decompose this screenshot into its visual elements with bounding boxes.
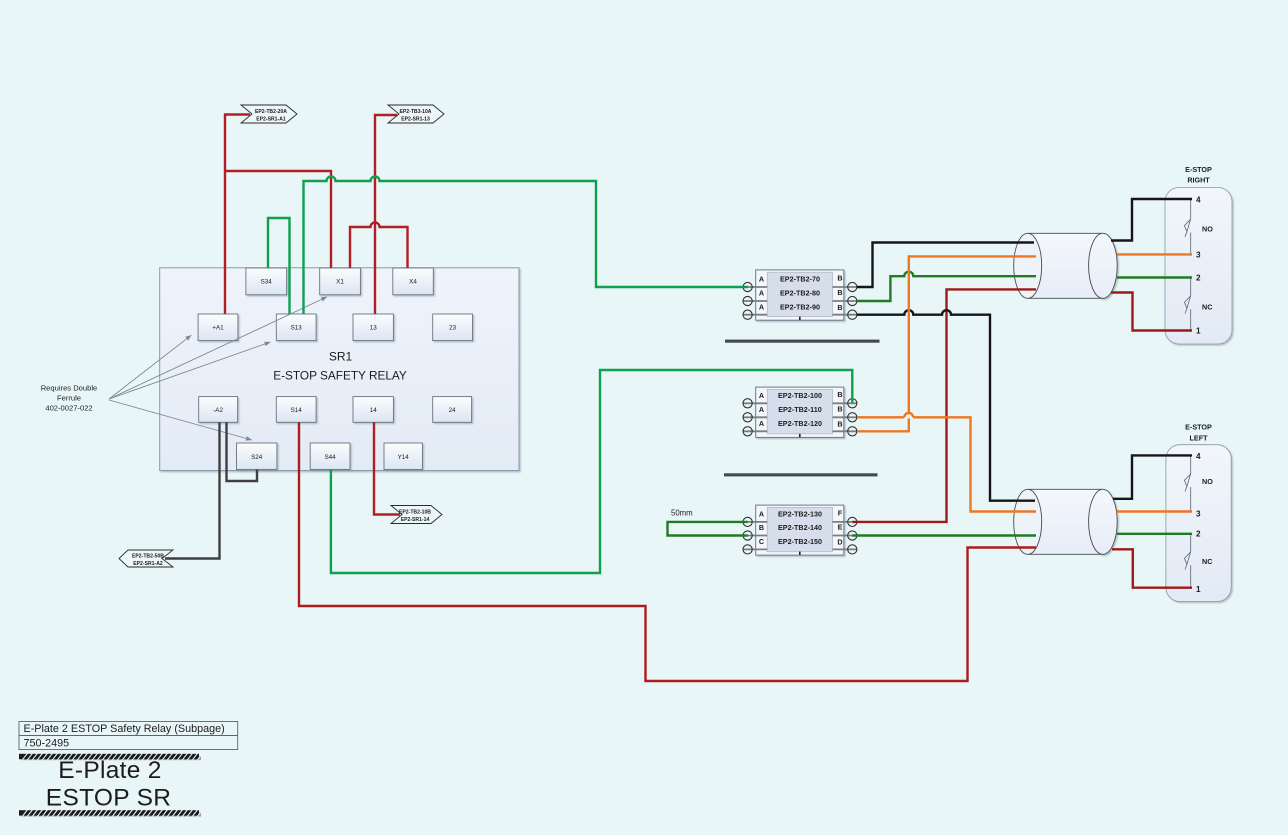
svg-text:X1: X1 <box>336 279 344 286</box>
svg-text:2: 2 <box>1196 530 1201 539</box>
terminal EP2-TB2-130 labels, pin A and pin F <box>759 509 843 519</box>
svg-text:E: E <box>838 523 843 532</box>
hatched bar above page title <box>19 753 203 761</box>
svg-text:B: B <box>837 288 842 297</box>
wire dark-green from cable cylinder to E-STOP RIGHT pin 2 <box>1117 276 1192 278</box>
svg-text:F: F <box>838 509 843 518</box>
svg-text:E-STOP SAFETY RELAY: E-STOP SAFETY RELAY <box>273 369 407 383</box>
svg-text:NC: NC <box>1202 302 1212 311</box>
E-STOP LEFT NO contact symbol <box>1184 455 1190 511</box>
E-STOP RIGHT NO contact symbol <box>1184 199 1190 254</box>
terminal X1 of SR1 <box>320 268 361 295</box>
wire black from terminal EP2-TB2-90 pin B to cable cylinder of E-STOP LEFT, hops over orange and red <box>857 310 1035 501</box>
svg-text:4: 4 <box>1196 195 1201 204</box>
svg-text:EP2-TB2-100: EP2-TB2-100 <box>778 391 822 400</box>
title block box: page description and number <box>19 722 238 750</box>
svg-text:EP2-TB2-10B: EP2-TB2-10B <box>399 509 431 515</box>
terminal EP2-TB2-120 labels, pin A and pin B <box>759 419 843 429</box>
svg-text:EP2-TB2-90: EP2-TB2-90 <box>780 303 820 312</box>
svg-text:EP2-TB2-50B: EP2-TB2-50B <box>132 553 164 559</box>
svg-text:2: 2 <box>1196 273 1201 282</box>
relay SR1 outline box <box>160 268 519 471</box>
wire black from terminal EP2-TB2-70 pin B to cable cylinder <box>857 243 1034 288</box>
wire green jumper terminal S34 to terminal S13 <box>268 218 290 314</box>
flag EP2-TB2-20A / EP2-SR1-A1 <box>241 105 297 123</box>
svg-text:E-STOP: E-STOP <box>1185 165 1212 174</box>
svg-text:A: A <box>759 405 764 414</box>
svg-text:S24: S24 <box>251 454 263 461</box>
terminal S14 of SR1 <box>276 397 316 423</box>
wire orange from terminal EP2-TB2-120 pin B up to junction node <box>857 418 909 431</box>
wire red from flag EP2-TB2-20A to terminal +A1, with branch node at y171 <box>225 115 250 315</box>
svg-text:EP2-TB2-20A: EP2-TB2-20A <box>255 109 287 115</box>
tick mark under block EP2-TB2-70/80/90 <box>799 317 801 320</box>
wire dark-green from terminal EP2-TB2-140 pin E to cable cylinder of E-STOP LEFT <box>852 534 1036 536</box>
terminal Y14 of SR1 <box>384 443 422 470</box>
svg-text:EP2-TB2-70: EP2-TB2-70 <box>780 275 820 284</box>
svg-text:A: A <box>759 419 764 428</box>
wire orange from cable cylinder to E-STOP RIGHT pin 3 <box>1117 253 1193 255</box>
separator bar between terminal block groups 2 and 3 <box>724 473 878 476</box>
terminal X4 of SR1 <box>393 268 434 295</box>
terminal EP2-TB2-150 labels, pin C and pin D <box>759 537 843 547</box>
svg-text:1: 1 <box>1196 327 1201 336</box>
svg-text:NO: NO <box>1202 477 1213 486</box>
terminal EP2-TB2-90 labels, pin A and pin B <box>759 303 843 313</box>
svg-text:NO: NO <box>1202 224 1213 233</box>
svg-text:EP2-TB2-140: EP2-TB2-140 <box>778 523 822 532</box>
terminal S34 of SR1 <box>246 268 287 295</box>
svg-text:SR1: SR1 <box>329 350 353 364</box>
annotation arrow to terminal S13 <box>109 342 270 399</box>
svg-text:E-STOP: E-STOP <box>1185 423 1212 432</box>
svg-text:B: B <box>759 523 764 532</box>
svg-text:Y14: Y14 <box>398 454 410 461</box>
svg-text:B: B <box>837 404 842 413</box>
svg-text:D: D <box>837 538 842 547</box>
terminal EP2-TB2-70 labels, pin A and pin B <box>759 274 843 284</box>
junction circles of block EP2-TB2-130/140/150 <box>743 517 857 554</box>
wire red from flag EP2-TB3-10A to terminal 13 <box>375 115 397 314</box>
svg-text:EP2-TB2-150: EP2-TB2-150 <box>778 537 822 546</box>
cable cylinder to E-STOP RIGHT <box>1014 233 1118 298</box>
svg-text:1: 1 <box>1196 585 1201 594</box>
svg-text:750-2495: 750-2495 <box>24 737 70 749</box>
svg-text:B: B <box>837 420 842 429</box>
terminal 14 of SR1 <box>353 397 393 423</box>
svg-text:A: A <box>759 303 764 312</box>
svg-text:A: A <box>759 289 764 298</box>
svg-text:B: B <box>837 303 842 312</box>
terminal block EP2-TB2-70/80/90 <box>743 270 857 320</box>
wire dark-red from terminal EP2-TB2-130 pin F up to cable cylinder of E-STOP RIGHT <box>852 289 1036 522</box>
terminal 13 of SR1 <box>353 314 393 341</box>
junction circles of block EP2-TB2-100/110/120 <box>743 399 857 436</box>
svg-text:EP2-SR1-A1: EP2-SR1-A1 <box>256 116 286 122</box>
svg-text:23: 23 <box>449 325 457 332</box>
junction circles of block EP2-TB2-70/80/90 <box>743 282 857 319</box>
hatched bar below page title <box>19 809 203 817</box>
svg-text:3: 3 <box>1196 509 1201 518</box>
svg-text:RIGHT: RIGHT <box>1187 176 1210 185</box>
svg-text:EP2-SR1-A2: EP2-SR1-A2 <box>133 561 163 567</box>
separator bar between terminal block groups 1 and 2 <box>725 340 880 343</box>
annotation arrow to terminal X1 <box>109 297 327 399</box>
annotation arrow to terminal +A1 <box>109 335 191 399</box>
svg-text:NC: NC <box>1202 557 1212 566</box>
annotation arrow to terminal S24 <box>109 400 252 440</box>
svg-text:EP2-TB2-130: EP2-TB2-130 <box>778 510 822 519</box>
svg-text:B: B <box>837 390 842 399</box>
svg-text:3: 3 <box>1196 250 1201 259</box>
svg-text:ESTOP SR: ESTOP SR <box>46 784 171 811</box>
svg-text:+A1: +A1 <box>212 325 224 332</box>
svg-text:X4: X4 <box>409 279 417 286</box>
terminal -A2 of SR1 <box>199 397 238 423</box>
wire red from terminal 14 to flag EP2-TB2-10B <box>374 422 400 514</box>
terminal EP2-TB2-110 labels, pin A and pin B <box>759 404 843 414</box>
wire dark-green from terminal EP2-TB2-80 pin B to cable cylinder, hop over orange <box>857 272 1036 301</box>
svg-text:B: B <box>837 274 842 283</box>
wire green from terminal S13 to terminal EP2-TB2-70 pin A, hops over X1 and 13 wires <box>304 177 748 315</box>
svg-text:Ferrule: Ferrule <box>57 393 81 402</box>
wire red from terminal S14 to cable cylinder of E-STOP LEFT (long bottom run) <box>299 422 1036 681</box>
wire dark-gray from terminal -A2 to flag EP2-TB2-50B <box>165 422 220 558</box>
svg-text:EP2-SR1-13: EP2-SR1-13 <box>401 116 430 122</box>
wire red jumper terminal X1 to terminal X4 with hop over 13 wire <box>350 223 408 268</box>
svg-text:-A2: -A2 <box>213 407 223 414</box>
svg-text:E-Plate 2: E-Plate 2 <box>58 757 161 784</box>
wire dark-green 50mm jumper EP2-TB2-130 pin A to EP2-TB2-140 pin B <box>668 522 748 536</box>
svg-text:A: A <box>759 510 764 519</box>
svg-text:Requires Double: Requires Double <box>41 383 98 392</box>
svg-text:A: A <box>759 391 764 400</box>
terminal +A1 of SR1 <box>198 314 238 341</box>
wire orange from junction node to cable cylinder of E-STOP RIGHT <box>909 256 1036 412</box>
svg-text:E-Plate 2 ESTOP Safety Relay (: E-Plate 2 ESTOP Safety Relay (Subpage) <box>24 723 225 735</box>
terminal block EP2-TB2-130/140/150 <box>743 505 857 555</box>
terminal block EP2-TB2-100/110/120 <box>743 387 857 437</box>
svg-text:S14: S14 <box>291 407 303 414</box>
svg-text:EP2-TB2-80: EP2-TB2-80 <box>780 289 820 298</box>
E-STOP RIGHT pushbutton panel <box>1165 188 1232 345</box>
svg-text:50mm: 50mm <box>671 509 693 518</box>
wire black from cable cylinder to E-STOP LEFT pin 4 <box>1113 455 1192 498</box>
flag EP2-TB2-50B / EP2-SR1-A2 <box>119 550 173 567</box>
wire dark-red from cable cylinder to E-STOP RIGHT pin 1 <box>1111 293 1192 331</box>
E-STOP RIGHT NC contact symbol <box>1184 278 1190 331</box>
svg-text:402-0027-022: 402-0027-022 <box>45 403 92 412</box>
flag EP2-TB2-10B / EP2-SR1-14 <box>391 506 442 524</box>
terminal EP2-TB2-80 labels, pin A and pin B <box>759 288 843 298</box>
note Requires Double Ferrule 402-0027-022 <box>41 383 98 412</box>
terminal EP2-TB2-140 labels, pin B and pin E <box>759 523 843 533</box>
wire red branch from node (225,171) to terminal X1 <box>225 171 331 268</box>
svg-text:S13: S13 <box>291 325 303 332</box>
svg-text:S44: S44 <box>324 454 336 461</box>
terminal S24 of SR1 <box>237 443 277 470</box>
terminal 24 of SR1 <box>433 397 472 423</box>
E-STOP LEFT NC contact symbol <box>1184 534 1190 588</box>
tick mark under block EP2-TB2-100/110/120 <box>799 434 801 437</box>
svg-text:24: 24 <box>449 407 457 414</box>
svg-text:14: 14 <box>370 407 378 414</box>
svg-text:C: C <box>759 537 764 546</box>
svg-text:EP2-TB3-10A: EP2-TB3-10A <box>400 109 432 115</box>
wire orange junction hop at (909,417) <box>904 413 913 417</box>
wire orange from cable cylinder to E-STOP LEFT pin 3 <box>1117 510 1193 512</box>
terminal S13 of SR1 <box>276 314 316 341</box>
terminal EP2-TB2-100 labels, pin A and pin B <box>759 390 843 400</box>
wire green from terminal S44 to terminal EP2-TB2-100 pin B <box>331 370 852 573</box>
cable cylinder to E-STOP LEFT <box>1014 489 1118 554</box>
svg-text:EP2-SR1-14: EP2-SR1-14 <box>401 517 430 523</box>
svg-text:EP2-TB2-110: EP2-TB2-110 <box>778 405 822 414</box>
terminal S44 of SR1 <box>310 443 350 470</box>
terminal 23 of SR1 <box>433 314 473 341</box>
svg-text:S34: S34 <box>261 279 273 286</box>
tick mark under block EP2-TB2-130/140/150 <box>799 552 801 555</box>
wire dark-gray jumper terminal -A2 to terminal S24 <box>227 422 258 481</box>
E-STOP LEFT pushbutton panel <box>1166 445 1231 602</box>
wire dark-red from cable cylinder to E-STOP LEFT pin 1 <box>1112 549 1192 587</box>
svg-text:A: A <box>759 275 764 284</box>
flag EP2-TB3-10A / EP2-SR1-13 <box>388 105 444 123</box>
wire orange from terminal EP2-TB2-110 pin B to cable cylinder of E-STOP LEFT <box>857 417 1036 511</box>
svg-text:EP2-TB2-120: EP2-TB2-120 <box>778 419 822 428</box>
svg-text:4: 4 <box>1196 452 1201 461</box>
wire black from cable cylinder to E-STOP RIGHT pin 4 <box>1111 199 1192 241</box>
svg-text:LEFT: LEFT <box>1190 433 1209 442</box>
wire dark-green from cable cylinder to E-STOP LEFT pin 2 <box>1117 533 1192 535</box>
svg-text:13: 13 <box>370 325 378 332</box>
